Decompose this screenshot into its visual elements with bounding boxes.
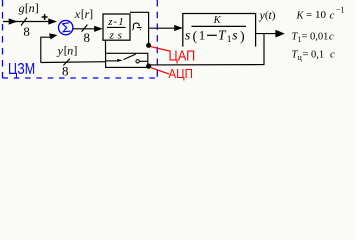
svg-text:]: ] [35, 1, 39, 15]
switch contact left [106, 60, 118, 62]
wire input g[n] [3, 21, 53, 23]
svg-text:c: c [329, 32, 334, 43]
svg-text:c: c [330, 10, 335, 22]
wire output y(t) [256, 33, 279, 35]
svg-text:s: s [118, 29, 122, 41]
leader line ADC [151, 68, 169, 74]
arrowhead into W1 [94, 26, 103, 32]
wire feedback riser [41, 37, 51, 63]
svg-text:z: z [107, 16, 113, 28]
dashed boundary bottom [3, 77, 158, 79]
leader line DAC [151, 47, 170, 51]
block W1 zero-order hold (z-1)/(zs) [103, 14, 130, 40]
svg-text:ЦАП: ЦАП [169, 46, 196, 63]
svg-text:x: x [74, 7, 81, 21]
switch contact circle [136, 60, 139, 63]
svg-text:= 0,01: = 0,01 [302, 32, 329, 43]
svg-text:= 0,1: = 0,1 [303, 50, 325, 61]
bus slash y [63, 59, 70, 66]
svg-text:z: z [109, 29, 115, 41]
svg-text:y: y [57, 43, 64, 57]
svg-text:c: c [330, 50, 335, 61]
svg-text:s: s [185, 28, 190, 43]
wire summer to block W1 [73, 28, 99, 30]
staircase glyph on wire [132, 23, 141, 30]
svg-text:]: ] [74, 45, 78, 57]
svg-text:): ) [272, 10, 276, 22]
svg-text:ЦЗМ: ЦЗМ [8, 61, 35, 79]
svg-text:(: ( [193, 30, 198, 45]
tap to DAC dot [130, 12, 149, 43]
bus slash input [21, 18, 27, 26]
svg-text:-: - [114, 17, 118, 28]
svg-text:1: 1 [227, 35, 232, 45]
svg-text:8: 8 [23, 24, 30, 39]
svg-text:K: K [213, 15, 222, 26]
svg-text:1: 1 [118, 16, 124, 28]
svg-text:АЦП: АЦП [169, 66, 193, 81]
block W2 K/(s(1-T1s)) [183, 14, 256, 47]
svg-text:8: 8 [84, 30, 91, 45]
sampler box ADC [106, 53, 148, 67]
arrowhead into W2 [174, 25, 183, 31]
wire feedback tap from output [151, 34, 265, 65]
wire W1 to W2 [148, 27, 178, 29]
svg-text:g: g [19, 1, 25, 15]
switch arm [124, 54, 136, 60]
svg-text:= 10: = 10 [306, 9, 326, 21]
wire connector W1 to sampler box [105, 40, 107, 53]
svg-text:]: ] [89, 9, 93, 21]
wire feedback into sampler [41, 61, 106, 64]
arrowhead feedback into summer [49, 33, 57, 39]
svg-text:): ) [240, 30, 245, 45]
junction dot ADC [146, 64, 151, 69]
junction dot DAC [146, 43, 151, 48]
summing junction U-sum [58, 20, 72, 34]
arrowhead at boundary [9, 18, 18, 24]
arrowhead output [275, 30, 284, 38]
bus slash x [82, 25, 88, 32]
svg-text:n: n [29, 1, 35, 15]
svg-text:K: K [296, 11, 305, 22]
arrowhead into summer [48, 18, 57, 24]
svg-text:1: 1 [199, 28, 206, 43]
dashed boundary right [156, 0, 158, 78]
svg-text:−1: −1 [336, 6, 345, 15]
svg-text:8: 8 [62, 64, 69, 79]
svg-text:n: n [67, 43, 73, 57]
dashed boundary left (ЦЗМ box) [2, 0, 4, 78]
svg-text:s: s [232, 28, 237, 43]
plus sign [42, 14, 48, 20]
